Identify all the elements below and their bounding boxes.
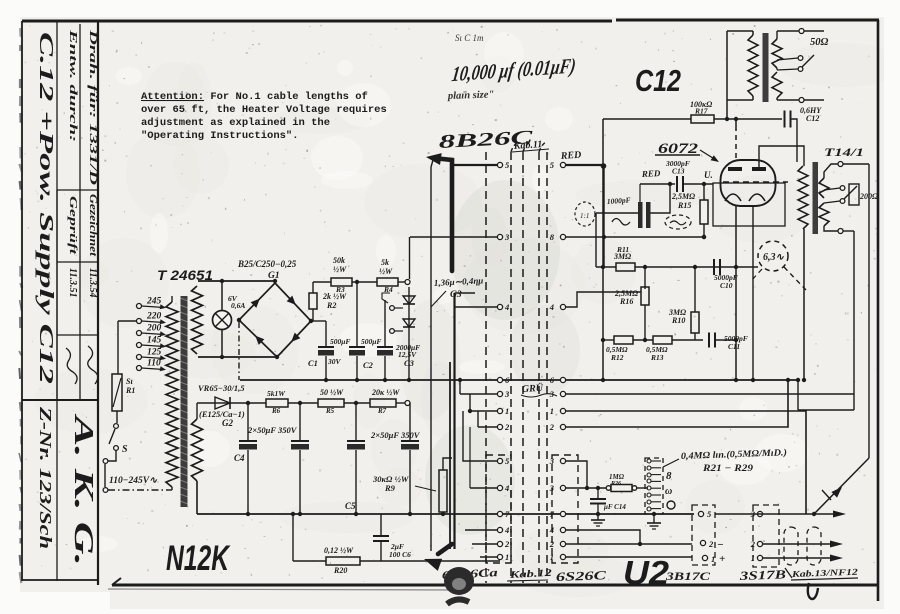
svg-text:2: 2	[504, 539, 510, 549]
svg-text:μF C14: μF C14	[603, 503, 626, 511]
svg-text:C10: C10	[720, 281, 733, 290]
svg-text:1: 1	[550, 406, 554, 416]
svg-text:Geprüft: Geprüft	[67, 196, 79, 256]
svg-text:−: −	[717, 539, 724, 551]
svg-text:500μF: 500μF	[330, 337, 350, 346]
svg-text:3: 3	[504, 232, 510, 242]
svg-text:G3: G3	[450, 290, 462, 300]
svg-text:N12K: N12K	[166, 539, 231, 578]
svg-text:1:1: 1:1	[580, 212, 589, 220]
svg-text:Z-Nr. 123/Sch: Z-Nr. 123/Sch	[36, 406, 55, 549]
svg-text:adjustment as explained in the: adjustment as explained in the	[141, 117, 330, 129]
svg-text:C2: C2	[363, 360, 374, 370]
svg-text:11.3.54: 11.3.54	[87, 268, 98, 297]
svg-text:R13: R13	[650, 353, 664, 362]
svg-text:50k: 50k	[333, 256, 345, 265]
svg-text:R15: R15	[677, 201, 691, 210]
svg-text:1MΩ: 1MΩ	[609, 473, 625, 481]
svg-text:S: S	[122, 444, 128, 455]
svg-text:2: 2	[708, 539, 714, 549]
svg-text:4: 4	[549, 302, 554, 312]
svg-text:R16: R16	[619, 297, 633, 306]
svg-text:C12: C12	[806, 114, 819, 123]
svg-text:Gezeichnet: Gezeichnet	[87, 194, 98, 258]
svg-text:6,3∿: 6,3∿	[763, 252, 785, 263]
svg-text:R11: R11	[616, 245, 629, 254]
svg-text:"Operating Instructions".: "Operating Instructions".	[141, 130, 299, 142]
svg-text:3S17B: 3S17B	[738, 567, 786, 583]
svg-text:R6: R6	[271, 407, 281, 415]
svg-text:125: 125	[147, 348, 162, 358]
svg-text:+: +	[719, 553, 725, 565]
svg-text:3B17C: 3B17C	[665, 571, 711, 583]
svg-text:G1: G1	[268, 271, 280, 281]
svg-text:U.: U.	[704, 170, 713, 180]
svg-text:GRÜ: GRÜ	[521, 381, 544, 395]
svg-text:T14/1: T14/1	[824, 145, 864, 159]
svg-text:1: 1	[711, 554, 715, 564]
svg-text:30V: 30V	[327, 357, 342, 366]
svg-text:C4: C4	[234, 453, 245, 463]
svg-text:over 65 ft, the Heater Voltage: over 65 ft, the Heater Voltage requires	[141, 104, 387, 116]
svg-text:8: 8	[666, 470, 672, 482]
svg-text:220: 220	[146, 312, 162, 322]
svg-text:1: 1	[751, 553, 755, 563]
svg-text:2: 2	[750, 539, 756, 549]
svg-text:R9: R9	[384, 483, 396, 493]
svg-text:4: 4	[504, 483, 509, 493]
svg-text:2: 2	[549, 422, 555, 432]
svg-text:6S26C: 6S26C	[556, 568, 607, 584]
svg-text:5k: 5k	[381, 258, 389, 267]
svg-text:110: 110	[147, 359, 161, 369]
svg-text:1: 1	[505, 406, 509, 416]
svg-text:11.3.51: 11.3.51	[67, 268, 78, 297]
svg-text:0,6A: 0,6A	[231, 301, 245, 310]
svg-text:1: 1	[505, 552, 509, 562]
svg-text:2: 2	[549, 539, 555, 549]
svg-text:C11: C11	[728, 342, 740, 351]
svg-text:Sɩ C 1m: Sɩ C 1m	[455, 33, 484, 43]
svg-text:1: 1	[550, 552, 554, 562]
svg-text:C1: C1	[308, 358, 318, 368]
svg-text:Kab.12: Kab.12	[508, 568, 552, 581]
svg-text:2×50μF 350V: 2×50μF 350V	[370, 430, 421, 440]
svg-text:½W: ½W	[379, 267, 393, 276]
svg-text:plaı̈n ѕizeʺ: plaı̈n ѕizeʺ	[447, 89, 495, 102]
svg-text:½W: ½W	[333, 265, 347, 274]
svg-text:200: 200	[146, 324, 162, 334]
svg-text:R17: R17	[694, 107, 708, 116]
svg-text:R20: R20	[333, 566, 347, 575]
svg-text:RED: RED	[559, 150, 581, 162]
svg-text:2: 2	[504, 422, 510, 432]
svg-text:R12: R12	[610, 353, 624, 362]
svg-text:50Ω: 50Ω	[810, 37, 829, 48]
svg-text:R2: R2	[326, 301, 336, 310]
svg-text:R1: R1	[125, 386, 135, 395]
svg-text:U2: U2	[623, 554, 670, 591]
svg-text:3: 3	[549, 456, 555, 466]
svg-text:RED: RED	[641, 168, 662, 179]
svg-text:R10: R10	[671, 316, 685, 325]
svg-text:C13: C13	[672, 167, 685, 176]
svg-text:Entw. durch:: Entw. durch:	[67, 28, 78, 142]
svg-text:3: 3	[549, 483, 555, 493]
svg-text:R7: R7	[377, 407, 387, 415]
svg-text:R21 − R29: R21 − R29	[702, 464, 753, 474]
svg-text:4: 4	[549, 525, 554, 535]
svg-text:145: 145	[147, 336, 162, 346]
svg-text:3: 3	[549, 389, 555, 399]
svg-text:R3: R3	[335, 285, 345, 294]
svg-text:0,12 ½W: 0,12 ½W	[324, 546, 354, 555]
svg-text:C12: C12	[635, 63, 681, 98]
svg-text:100 C6: 100 C6	[389, 550, 411, 559]
svg-text:Attention: For No.1 cable leng: Attention: For No.1 cable lengths of	[141, 91, 368, 103]
svg-text:C.12 +Pow. Supply C12: C.12 +Pow. Supply C12	[35, 32, 57, 384]
svg-text:4: 4	[504, 525, 509, 535]
svg-text:200Ω: 200Ω	[859, 192, 878, 201]
svg-text:Sɩ: Sɩ	[126, 377, 133, 386]
svg-text:ω: ω	[665, 486, 672, 497]
svg-text:B25/C250−0,25: B25/C250−0,25	[237, 259, 297, 269]
svg-text:VR65−30/1,5: VR65−30/1,5	[198, 383, 245, 393]
svg-text:C5: C5	[345, 501, 356, 511]
svg-text:245: 245	[146, 297, 162, 307]
svg-text:Drah. für: 1331/D: Drah. für: 1331/D	[87, 28, 98, 185]
svg-text:4: 4	[504, 302, 509, 312]
svg-text:1000pF: 1000pF	[607, 195, 631, 206]
svg-text:3: 3	[504, 389, 510, 399]
svg-text:5k1W: 5k1W	[267, 389, 286, 398]
svg-text:A. K. G.: A. K. G.	[69, 413, 99, 566]
svg-text:2×50μF 350V: 2×50μF 350V	[247, 425, 298, 435]
svg-text:2,5MΩ: 2,5MΩ	[671, 192, 695, 201]
svg-text:110−245V∿: 110−245V∿	[109, 476, 158, 486]
svg-text:R5: R5	[325, 407, 335, 415]
svg-text:50 ½W: 50 ½W	[320, 388, 344, 397]
svg-text:G2: G2	[222, 418, 233, 428]
svg-text:500μF: 500μF	[361, 337, 381, 346]
svg-text:20κ ½W: 20κ ½W	[371, 388, 400, 397]
svg-text:R26: R26	[610, 481, 621, 487]
